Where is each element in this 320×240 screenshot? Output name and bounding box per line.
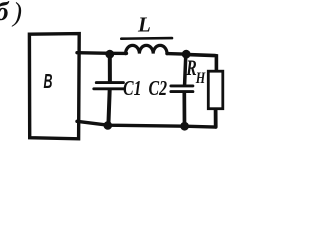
node C (bottom junction of C1) bbox=[104, 121, 113, 130]
svg-text:В: В bbox=[44, 70, 53, 93]
wire node B to top-right corner and down to resistor bbox=[188, 55, 216, 71]
label C1 bbox=[123, 76, 142, 100]
node D (bottom junction of C2) bbox=[180, 122, 189, 131]
wire bottom rail bbox=[77, 121, 216, 127]
capacitor C2 bbox=[171, 55, 193, 126]
node B (top junction of C2) bbox=[182, 50, 191, 59]
label C2 bbox=[149, 76, 168, 100]
wire node A to inductor bbox=[110, 52, 127, 56]
wire inductor to node B bbox=[167, 52, 188, 56]
svg-text:): ) bbox=[11, 0, 22, 27]
label L bbox=[137, 13, 151, 37]
line under label L bbox=[121, 37, 172, 40]
svg-text:б: б bbox=[0, 0, 10, 26]
svg-text:С2: С2 bbox=[149, 76, 168, 100]
wire top stub from B to node A bbox=[77, 51, 110, 55]
inductor L bbox=[126, 45, 167, 53]
svg-text:С1: С1 bbox=[123, 76, 142, 100]
resistor Rн bbox=[208, 71, 223, 127]
label б) bbox=[0, 0, 22, 27]
capacitor C1 bbox=[94, 55, 125, 125]
source block B bbox=[29, 34, 79, 139]
svg-text:Н: Н bbox=[195, 70, 206, 87]
label Rн bbox=[186, 55, 206, 87]
node A (top junction of C1) bbox=[105, 50, 114, 59]
label В bbox=[44, 70, 53, 93]
svg-text:L: L bbox=[137, 13, 151, 37]
